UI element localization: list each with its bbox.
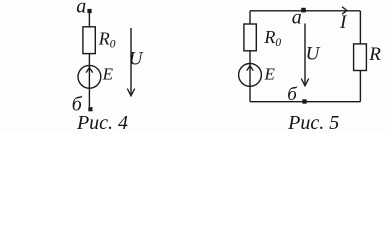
node b (б) — [302, 99, 306, 103]
svg-text:E: E — [264, 64, 276, 83]
voltage arrow U — [130, 28, 132, 96]
EMF arrowhead — [86, 68, 93, 73]
svg-text:E: E — [102, 64, 114, 83]
voltage arrowhead U — [127, 89, 134, 96]
wire right lower — [359, 71, 361, 102]
wire top — [250, 10, 360, 12]
svg-text:U: U — [129, 49, 144, 70]
wire left upper — [249, 11, 251, 24]
svg-text:б: б — [287, 84, 298, 105]
svg-text:a: a — [76, 0, 86, 18]
node b (б) — [88, 107, 92, 111]
svg-text:U: U — [306, 43, 321, 64]
EMF arrowhead — [247, 66, 254, 71]
wire R0 to E — [88, 54, 90, 66]
resistor R0 — [244, 24, 256, 51]
voltage arrow U — [304, 24, 306, 86]
resistor R0 — [83, 27, 95, 54]
source E circle — [78, 65, 101, 88]
node a — [87, 9, 91, 13]
voltage arrowhead U — [301, 79, 308, 86]
source E circle — [239, 64, 262, 87]
svg-text:a: a — [292, 7, 302, 29]
wire bottom — [250, 101, 360, 103]
current arrowhead I — [342, 7, 347, 14]
node a — [301, 8, 306, 13]
svg-text:Рис. 5: Рис. 5 — [287, 112, 339, 133]
wire left lower through source — [249, 51, 251, 102]
wire node a to R0 — [88, 11, 90, 27]
svg-text:Рис. 4: Рис. 4 — [76, 112, 128, 133]
EMF arrow line through source — [88, 66, 90, 107]
resistor R — [354, 44, 367, 71]
wire right upper — [359, 11, 361, 44]
svg-text:R: R — [368, 44, 381, 65]
